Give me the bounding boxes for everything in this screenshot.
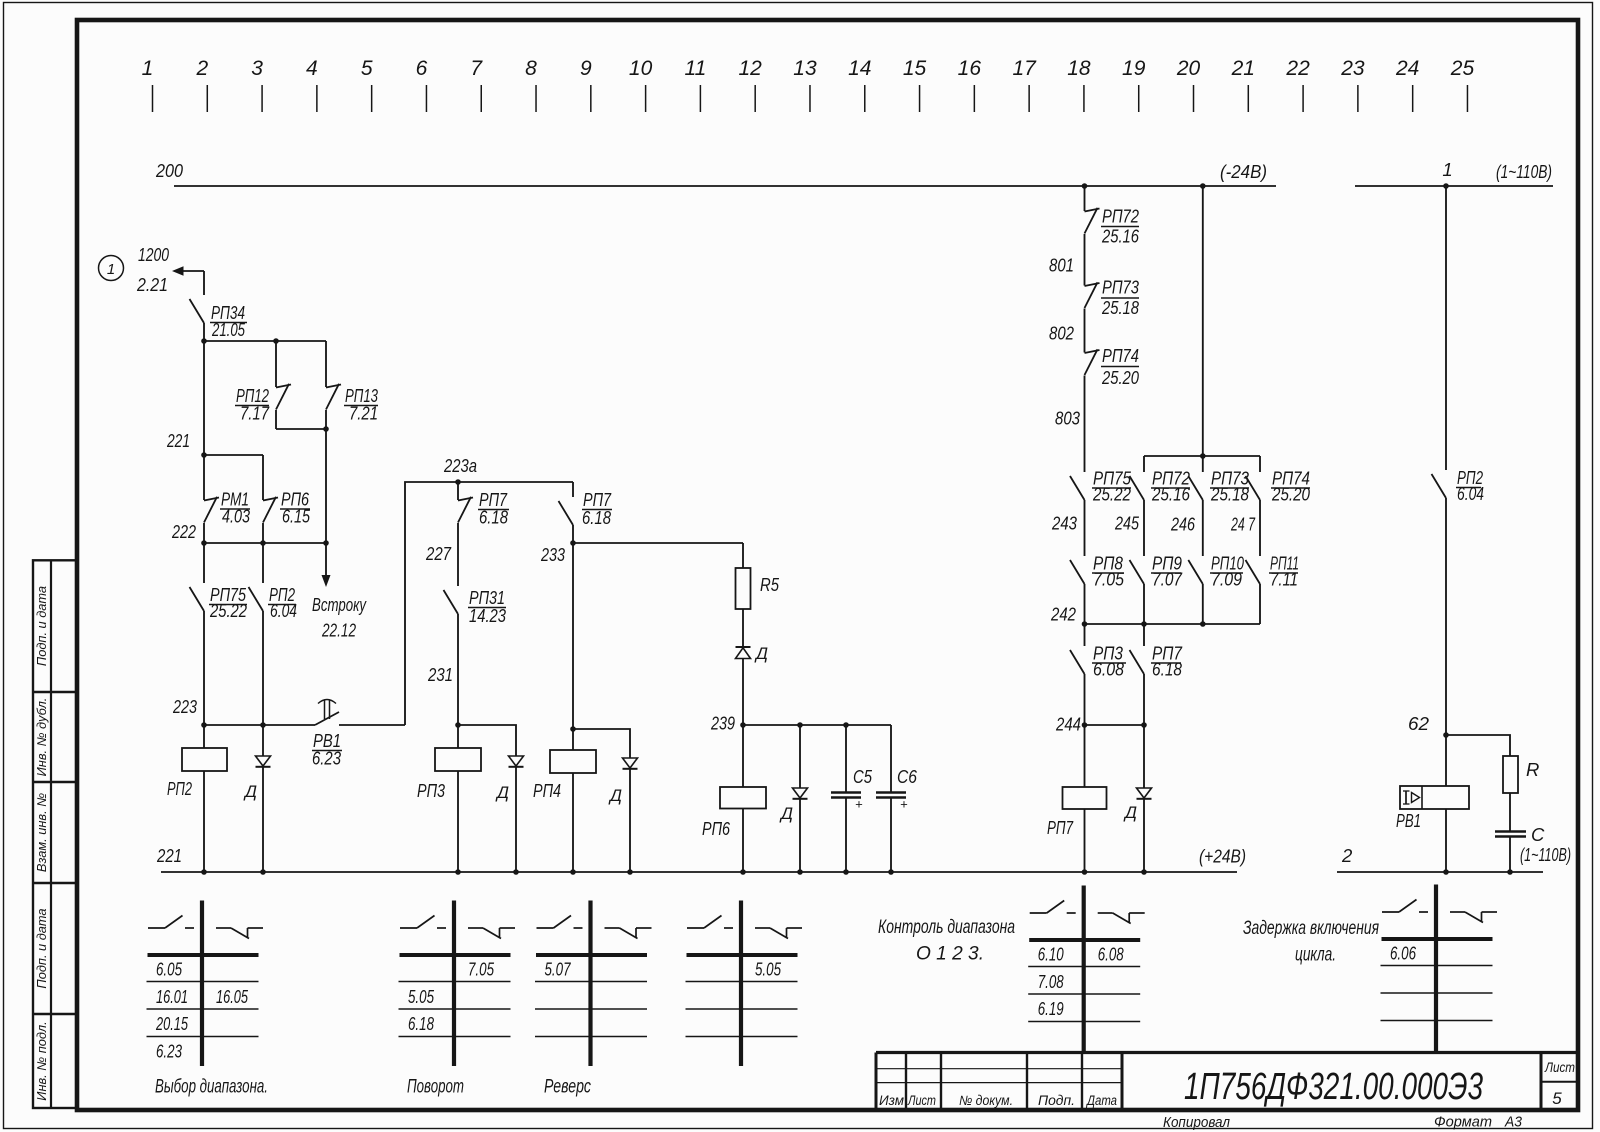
svg-text:(1~110В): (1~110В): [1496, 161, 1552, 182]
node junction 200/colB: [1200, 183, 1206, 189]
svg-text:9: 9: [580, 57, 592, 80]
svg-text:233: 233: [540, 544, 565, 565]
contact RV1 6.23 (time delay NO): [312, 700, 342, 769]
capacitor C6: [876, 725, 918, 872]
svg-text:Изм: Изм: [879, 1093, 904, 1108]
node junction 221-c: [455, 869, 461, 875]
svg-text:6.18: 6.18: [582, 507, 612, 528]
svg-text:1П756ДФ321.00.000Э3: 1П756ДФ321.00.000Э3: [1184, 1066, 1483, 1108]
wire colL1 top: [203, 271, 205, 295]
wire RP12-RP13 bottom: [276, 429, 326, 543]
svg-text:22.12: 22.12: [321, 620, 356, 641]
node junction 231/RP3: [455, 722, 461, 728]
svg-text:10: 10: [629, 57, 653, 80]
svg-text:Поворот: Поворот: [407, 1076, 464, 1098]
svg-text:+: +: [855, 797, 863, 812]
svg-text:18: 18: [1067, 57, 1091, 80]
svg-text:221: 221: [156, 845, 182, 866]
wire branch 341: [204, 340, 326, 342]
node junction 221-e: [570, 869, 576, 875]
contact RP2 6.04 (NO, 110V): [1432, 186, 1485, 735]
svg-text:РП7: РП7: [1047, 817, 1074, 838]
relay coil RP7: [1047, 725, 1107, 872]
node junction 221-k: [1082, 869, 1088, 875]
off-sheet arrow V stroku 22.12: [312, 543, 367, 641]
svg-text:Взам. инв. №: Взам. инв. №: [34, 793, 49, 872]
node junction 221-g: [740, 869, 746, 875]
node junction RP4 top: [570, 726, 576, 732]
svg-text:Инв. № дубл.: Инв. № дубл.: [34, 698, 49, 777]
svg-text:16: 16: [958, 57, 982, 80]
wire 233 rung: [540, 543, 743, 565]
svg-text:7.07: 7.07: [1152, 569, 1183, 590]
node junction 341/RP12: [273, 338, 279, 344]
svg-text:20: 20: [1176, 57, 1201, 80]
svg-text:О 1 2 3.: О 1 2 3.: [916, 943, 984, 965]
svg-text:14.23: 14.23: [469, 605, 507, 626]
svg-text:20.15: 20.15: [155, 1014, 188, 1034]
svg-text:+: +: [900, 797, 908, 812]
svg-text:Подп.: Подп.: [1038, 1093, 1075, 1108]
sheet reference circle 1: [99, 256, 124, 281]
svg-text:Д: Д: [754, 644, 768, 663]
node junction 242a: [1082, 621, 1088, 627]
diode D (RP6 parallel): [779, 725, 808, 872]
node junction 221-f: [627, 869, 633, 875]
svg-text:12: 12: [739, 57, 763, 80]
svg-text:244: 244: [1055, 714, 1081, 735]
svg-text:7.08: 7.08: [1038, 972, 1064, 992]
node junction 221-b: [260, 869, 266, 875]
node junction 2b: [1507, 869, 1513, 875]
node label 223a: [443, 455, 477, 476]
svg-text:РП3: РП3: [417, 780, 446, 801]
svg-text:6.23: 6.23: [312, 748, 342, 769]
node junction 239c: [843, 722, 849, 728]
node 221 upper: [166, 430, 263, 458]
svg-text:7.09: 7.09: [1211, 569, 1242, 590]
wire bus 1 (1~110V): [1355, 159, 1553, 186]
node label 243: [1051, 513, 1077, 534]
svg-text:7.05: 7.05: [1093, 569, 1125, 590]
wire 222 rung: [171, 521, 326, 543]
node junction 239a: [740, 722, 746, 728]
svg-text:246: 246: [1170, 514, 1195, 535]
svg-text:7: 7: [470, 57, 483, 80]
svg-text:7.21: 7.21: [349, 403, 378, 424]
column ruler numbers 1-25: [142, 57, 1475, 112]
svg-text:223: 223: [172, 696, 197, 717]
svg-text:Дата: Дата: [1085, 1093, 1117, 1108]
node junction 221-i: [843, 869, 849, 875]
svg-text:6.08: 6.08: [1098, 945, 1124, 965]
svg-text:4: 4: [306, 57, 318, 80]
node label 245: [1114, 513, 1139, 534]
node junction 239b: [797, 722, 803, 728]
contact RP3 6.08 (NO): [1070, 624, 1126, 725]
svg-text:25: 25: [1450, 57, 1475, 80]
svg-text:(1~110В): (1~110В): [1520, 844, 1571, 865]
svg-text:R: R: [1526, 759, 1539, 780]
svg-text:(-24В): (-24В): [1220, 161, 1267, 182]
svg-text:24 7: 24 7: [1230, 514, 1255, 535]
svg-text:25.16: 25.16: [1101, 226, 1139, 247]
svg-text:16.01: 16.01: [156, 987, 188, 1007]
svg-text:2: 2: [195, 57, 208, 80]
svg-text:Лист: Лист: [907, 1093, 936, 1108]
label C value: [1520, 844, 1571, 865]
svg-text:7.17: 7.17: [240, 403, 270, 424]
svg-text:243: 243: [1051, 513, 1077, 534]
svg-text:6.18: 6.18: [1152, 659, 1183, 680]
diode D (R5 branch): [736, 644, 769, 725]
node junction 244a: [1082, 722, 1088, 728]
svg-text:РВ1: РВ1: [1396, 810, 1421, 831]
svg-text:C5: C5: [853, 766, 873, 787]
svg-text:1: 1: [107, 261, 115, 278]
svg-text:25.22: 25.22: [209, 600, 247, 621]
wire branch 62: [1446, 735, 1510, 756]
wire bus 200 (-24V): [155, 160, 1276, 186]
contact table Vybor diapazona: [147, 901, 269, 1098]
wire bracket rung 456: [1144, 455, 1260, 457]
node junction 62: [1443, 732, 1449, 738]
svg-text:223а: 223а: [443, 455, 477, 476]
node junction bus1: [1443, 183, 1449, 189]
svg-text:№ докум.: № докум.: [959, 1093, 1013, 1108]
svg-text:7.11: 7.11: [1270, 569, 1298, 590]
svg-text:5.05: 5.05: [755, 960, 782, 980]
contact RP74 25.20 (NO): [1246, 456, 1311, 556]
svg-text:Д: Д: [243, 782, 257, 801]
wire 244 rung: [1055, 714, 1144, 735]
svg-text:6.05: 6.05: [156, 960, 183, 980]
wire 239 rung: [710, 713, 891, 734]
contact RP73 25.18 (NC): [1085, 277, 1140, 353]
node label 62: [1408, 713, 1430, 734]
contact RP8 7.05 (NO): [1070, 553, 1125, 625]
svg-text:6.18: 6.18: [408, 1014, 434, 1034]
node junction 223b: [260, 722, 266, 728]
contact RP73 25.18 (NO): [1188, 456, 1249, 556]
node junction bracket: [1200, 453, 1206, 459]
svg-text:22: 22: [1285, 57, 1310, 80]
svg-text:Инв. № подл.: Инв. № подл.: [34, 1021, 49, 1100]
svg-text:C6: C6: [897, 766, 918, 787]
svg-text:1200: 1200: [138, 244, 170, 265]
svg-text:(+24В): (+24В): [1199, 846, 1246, 867]
svg-text:5: 5: [1552, 1089, 1562, 1108]
contact RP9 7.07 (NO): [1130, 553, 1183, 625]
svg-text:5: 5: [361, 57, 373, 80]
svg-text:7.05: 7.05: [468, 960, 495, 980]
svg-text:А3: А3: [1504, 1114, 1523, 1131]
contact table Povorot: [399, 901, 516, 1098]
off-sheet arrow to 1200 / 2.21: [136, 244, 204, 295]
contact RP75 25.22 (NO): [190, 543, 248, 725]
wire column A from bus 200: [1084, 186, 1086, 211]
contact RP11 7.11 (NO): [1246, 553, 1300, 625]
capacitor C5: [831, 725, 873, 872]
svg-text:16.05: 16.05: [216, 987, 249, 1007]
contact RP2 6.04 (NO): [249, 543, 298, 725]
svg-text:6.23: 6.23: [156, 1041, 182, 1061]
node junction 341: [201, 338, 207, 344]
wire 221 bottom rail (+24V): [156, 845, 1246, 872]
diode D (RP2 parallel): [243, 725, 271, 872]
node label 246: [1170, 514, 1195, 535]
svg-text:6.15: 6.15: [282, 506, 311, 527]
svg-text:Д: Д: [779, 804, 793, 823]
svg-text:11: 11: [684, 57, 706, 80]
svg-text:РП72: РП72: [1102, 206, 1140, 227]
svg-text:Д: Д: [495, 783, 509, 802]
wire column B from bus 200: [1202, 186, 1204, 456]
svg-text:3: 3: [251, 57, 263, 80]
svg-text:Контроль диапазона: Контроль диапазона: [878, 916, 1015, 938]
svg-text:РП6: РП6: [702, 818, 731, 839]
svg-text:15: 15: [903, 57, 927, 80]
svg-text:803: 803: [1055, 408, 1081, 429]
svg-text:6.19: 6.19: [1038, 999, 1064, 1019]
svg-text:25.18: 25.18: [1210, 484, 1249, 505]
svg-text:2.21: 2.21: [136, 274, 168, 295]
contact RP12 7.17 (NC): [235, 341, 291, 429]
svg-text:Д: Д: [1123, 803, 1137, 822]
svg-text:200: 200: [155, 160, 183, 181]
svg-text:24: 24: [1395, 57, 1419, 80]
contact RP72 25.16 (NO): [1130, 456, 1191, 556]
svg-text:231: 231: [427, 664, 453, 685]
wire colL1 node341: [203, 323, 205, 455]
node junction 221-l: [1141, 869, 1147, 875]
svg-text:Выбор диапазона.: Выбор диапазона.: [155, 1076, 268, 1098]
title block: [876, 1053, 1578, 1132]
relay coil RP3: [417, 725, 481, 872]
contact RP74 25.20 (NC): [1085, 345, 1140, 472]
svg-text:1: 1: [142, 57, 154, 80]
svg-text:13: 13: [793, 57, 817, 80]
svg-text:227: 227: [425, 543, 451, 564]
contact RP31 14.23 (NO): [444, 587, 507, 725]
svg-text:19: 19: [1122, 57, 1146, 80]
svg-text:222: 222: [171, 521, 196, 542]
node junction 222b: [260, 540, 266, 546]
svg-text:4.03: 4.03: [222, 506, 251, 527]
contact RP6 6.15 (NC): [263, 455, 311, 543]
svg-text:РП73: РП73: [1102, 277, 1140, 298]
relay coil RP6: [702, 725, 766, 872]
contact RP13 7.21 (NC): [326, 341, 379, 429]
wire 242 rung: [1050, 604, 1260, 625]
node junction 223a: [201, 722, 207, 728]
svg-text:6.04: 6.04: [1457, 483, 1484, 504]
svg-text:25.18: 25.18: [1101, 297, 1139, 318]
svg-text:C: C: [1531, 824, 1545, 845]
resistor R: [1503, 756, 1539, 831]
contact table Zaderzhka: [1243, 885, 1497, 1055]
frame column: document info strip: [33, 560, 77, 1108]
node label 802: [1049, 323, 1075, 344]
svg-text:62: 62: [1408, 713, 1430, 734]
node junction 233: [570, 540, 576, 546]
svg-text:6.18: 6.18: [479, 507, 509, 528]
contact RP75 25.22 (NO): [1070, 468, 1132, 557]
svg-text:25.20: 25.20: [1101, 367, 1139, 388]
svg-text:Формат: Формат: [1434, 1114, 1492, 1131]
node junction 2a: [1443, 869, 1449, 875]
contact table Revers: [535, 901, 652, 1098]
node junction 222a: [201, 540, 207, 546]
wire branch diode RP4: [573, 729, 638, 872]
node junction 244b: [1141, 722, 1147, 728]
node junction 242b: [1141, 621, 1147, 627]
diode D (RP7 parallel): [1123, 725, 1152, 872]
svg-text:221: 221: [166, 430, 190, 451]
node junction 221-a: [201, 869, 207, 875]
contact RP72 25.16 (NC): [1085, 206, 1140, 286]
node junction 200/colA: [1082, 183, 1088, 189]
svg-text:25.16: 25.16: [1151, 484, 1190, 505]
svg-text:239: 239: [710, 713, 735, 734]
svg-text:25.20: 25.20: [1271, 484, 1310, 505]
wire riser 223a-left: [405, 482, 573, 725]
svg-text:Встроку: Встроку: [312, 594, 367, 615]
svg-text:242: 242: [1050, 604, 1076, 625]
svg-text:8: 8: [525, 57, 537, 80]
svg-text:6: 6: [416, 57, 428, 80]
svg-text:Д: Д: [608, 786, 622, 805]
svg-text:Реверс: Реверс: [544, 1076, 591, 1098]
node junction 221-h: [797, 869, 803, 875]
svg-text:Задержка включения: Задержка включения: [1243, 917, 1379, 939]
svg-text:РП74: РП74: [1102, 345, 1139, 366]
capacitor C: [1495, 824, 1545, 872]
svg-text:17: 17: [1012, 57, 1037, 80]
svg-text:2: 2: [1341, 845, 1353, 866]
svg-text:цикла.: цикла.: [1295, 944, 1336, 966]
svg-text:23: 23: [1340, 57, 1365, 80]
svg-text:25.22: 25.22: [1092, 484, 1131, 505]
node label 803: [1055, 408, 1081, 429]
node junction 429: [323, 426, 329, 432]
resistor R5: [736, 543, 780, 647]
svg-text:РП4: РП4: [533, 780, 561, 801]
node junction 222c: [323, 540, 329, 546]
contact table Kontrol diapazona: [878, 886, 1145, 1055]
time relay coil RV1: [1396, 735, 1469, 872]
svg-text:Подп. и дата: Подп. и дата: [34, 586, 49, 666]
wire bottom rail 2: [1337, 845, 1543, 872]
node label 231: [427, 664, 453, 685]
svg-text:21.05: 21.05: [211, 319, 245, 340]
contact RP10 7.09 (NO): [1188, 553, 1244, 625]
svg-text:5.05: 5.05: [408, 987, 435, 1007]
svg-text:5.07: 5.07: [545, 960, 572, 980]
relay coil RP2: [167, 725, 227, 872]
svg-text:Копировал: Копировал: [1163, 1114, 1230, 1131]
contact RP7 6.18 (NO, mid): [1130, 624, 1183, 725]
svg-text:14: 14: [848, 57, 871, 80]
svg-text:Лист: Лист: [1544, 1060, 1575, 1075]
contact RP7 6.18 right (NO): [559, 482, 613, 543]
node junction 221-d: [513, 869, 519, 875]
svg-text:РП2: РП2: [167, 778, 192, 799]
svg-text:802: 802: [1049, 323, 1075, 344]
node junction 242c: [1200, 621, 1206, 627]
node label 801: [1049, 255, 1074, 276]
node label 247: [1230, 514, 1255, 535]
wire 223 rung: [172, 696, 405, 725]
contact RP34 21.05 (NO): [190, 299, 248, 340]
relay coil RP4: [533, 543, 596, 872]
svg-text:1: 1: [1442, 159, 1452, 180]
svg-text:Подп. и дата: Подп. и дата: [34, 908, 49, 988]
svg-text:21: 21: [1231, 57, 1255, 80]
node junction 221-j: [888, 869, 894, 875]
contact RM1 4.03 (NC): [204, 455, 251, 543]
node label 227: [425, 543, 451, 564]
svg-text:6.08: 6.08: [1093, 659, 1125, 680]
svg-text:245: 245: [1114, 513, 1139, 534]
node junction 223a/RP7: [455, 479, 461, 485]
wire branch diode RP3: [458, 725, 524, 872]
svg-text:6.04: 6.04: [270, 600, 297, 621]
svg-text:6.06: 6.06: [1390, 944, 1417, 964]
svg-text:R5: R5: [760, 574, 780, 595]
svg-text:801: 801: [1049, 255, 1074, 276]
svg-text:6.10: 6.10: [1038, 945, 1064, 965]
contact RP7 6.18 (NC): [458, 482, 509, 586]
contact table RP6: [686, 901, 803, 1067]
